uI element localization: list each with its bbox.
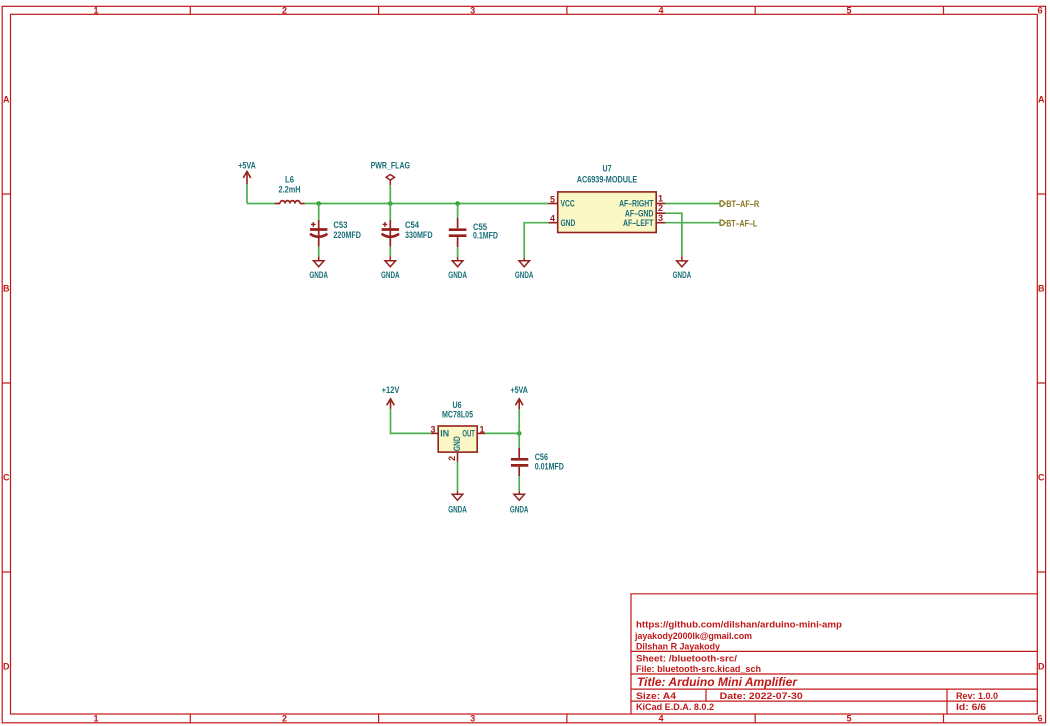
svg-text:2: 2: [447, 456, 457, 461]
title block: [631, 594, 1037, 714]
svg-text:C56: C56: [535, 452, 548, 462]
svg-text:GNDA: GNDA: [510, 505, 529, 515]
svg-text:B: B: [3, 284, 10, 294]
ground GNDA AF-GND: [677, 256, 688, 267]
svg-text:A: A: [3, 95, 10, 105]
wire C55 bottom: [457, 247, 459, 257]
svg-text:Id: 6/6: Id: 6/6: [956, 702, 986, 712]
wire GND pin4 horizontal: [524, 223, 548, 258]
net label BT-AF-L: [720, 218, 758, 228]
wire +5VA stem bottom: [518, 409, 520, 433]
pin 3 IN: [431, 432, 438, 434]
wire +12V to U6: [391, 409, 432, 434]
ground GNDA U7: [519, 258, 530, 267]
pin 1 OUT: [477, 432, 485, 434]
svg-text:4: 4: [550, 214, 555, 224]
svg-text:C53: C53: [333, 220, 347, 230]
svg-text:GNDA: GNDA: [381, 270, 400, 280]
wire C54 bottom: [389, 247, 391, 257]
ground GNDA U6: [452, 491, 463, 500]
svg-text:U7: U7: [603, 164, 612, 174]
svg-text:3: 3: [658, 213, 663, 223]
wire PWR_FLAG stem: [389, 185, 391, 203]
pin 5 VCC: [548, 203, 558, 205]
svg-text:AC6939-MODULE: AC6939-MODULE: [577, 175, 638, 185]
svg-text:L6: L6: [285, 174, 294, 184]
svg-text:jayakody2000lk@gmail.com: jayakody2000lk@gmail.com: [634, 631, 752, 641]
svg-text:220MFD: 220MFD: [333, 230, 361, 240]
svg-text:GNDA: GNDA: [309, 270, 328, 280]
svg-text:AF–RIGHT: AF–RIGHT: [619, 199, 654, 209]
wire C55 top: [457, 204, 459, 219]
pin 3 AF-LEFT: [656, 222, 666, 224]
svg-text:1: 1: [658, 194, 663, 204]
svg-text:Sheet: /bluetooth-src/: Sheet: /bluetooth-src/: [636, 653, 738, 663]
inductor L6: [275, 201, 305, 204]
svg-text:BT–AF–R: BT–AF–R: [726, 199, 760, 209]
svg-text:+12V: +12V: [382, 385, 400, 395]
svg-text:2: 2: [282, 6, 287, 16]
svg-text:C: C: [3, 473, 10, 483]
wire C54 top: [389, 204, 391, 221]
svg-text:Dilshan R Jayakody: Dilshan R Jayakody: [636, 642, 720, 652]
svg-text:File: bluetooth-src.kicad_sch: File: bluetooth-src.kicad_sch: [636, 664, 761, 674]
net label BT-AF-R: [720, 199, 760, 209]
svg-text:1: 1: [93, 6, 98, 16]
svg-text:3: 3: [470, 714, 475, 724]
ground GNDA C56: [514, 491, 525, 500]
svg-text:D: D: [1038, 661, 1045, 671]
wire AF-GND down: [666, 213, 682, 256]
wire VCC rail main: [305, 203, 549, 205]
svg-text:330MFD: 330MFD: [405, 230, 433, 240]
svg-text:C: C: [1038, 473, 1045, 483]
svg-text:+5VA: +5VA: [510, 385, 528, 395]
svg-text:MC78L05: MC78L05: [442, 410, 473, 420]
wire U6 out to junction: [485, 432, 519, 434]
svg-text:5: 5: [846, 6, 851, 16]
svg-text:Rev: 1.0.0: Rev: 1.0.0: [956, 691, 998, 701]
svg-text:GND: GND: [452, 436, 462, 451]
svg-text:KiCad E.D.A. 8.0.2: KiCad E.D.A. 8.0.2: [636, 702, 714, 712]
svg-text:D: D: [3, 661, 10, 671]
svg-text:2: 2: [282, 714, 287, 724]
wire AF-LEFT to BT-AF-L: [666, 222, 720, 224]
ground GNDA C55: [452, 257, 463, 267]
wire U6 pin2 down: [457, 462, 459, 491]
svg-text:IN: IN: [440, 429, 449, 439]
wire C53 bottom: [318, 247, 320, 257]
junction node C55: [455, 201, 460, 206]
power +5VA: [243, 172, 251, 185]
capacitor C54: [382, 220, 399, 247]
svg-text:4: 4: [658, 6, 663, 16]
junction node OUT: [517, 431, 522, 436]
svg-text:AF–LEFT: AF–LEFT: [623, 218, 654, 228]
svg-text:1: 1: [93, 714, 98, 724]
svg-text:PWR_FLAG: PWR_FLAG: [371, 161, 410, 171]
svg-text:https://github.com/dilshan/ard: https://github.com/dilshan/arduino-mini-…: [636, 620, 843, 630]
svg-text:GNDA: GNDA: [448, 505, 467, 515]
wire C56 top: [518, 433, 520, 448]
svg-text:6: 6: [1037, 714, 1042, 724]
ground GNDA C53: [313, 256, 324, 266]
svg-text:1: 1: [480, 424, 485, 434]
svg-text:Title: Arduino Mini Amplifier: Title: Arduino Mini Amplifier: [637, 677, 798, 689]
svg-text:GNDA: GNDA: [515, 270, 534, 280]
svg-text:GNDA: GNDA: [673, 270, 692, 280]
wire AF-RIGHT to BT-AF-R: [666, 203, 720, 205]
wire VCC rail left: [247, 203, 275, 205]
junction node C53: [316, 201, 321, 206]
wire +5VA drop: [246, 184, 248, 204]
IC U7 AC6939-MODULE: [548, 164, 666, 233]
svg-text:3: 3: [430, 424, 435, 434]
junction node C54: [388, 201, 393, 206]
svg-text:BT–AF–L: BT–AF–L: [726, 218, 757, 228]
pin 2 AF-GND: [656, 212, 666, 214]
svg-text:2: 2: [658, 203, 663, 213]
power flag PWR_FLAG: [386, 175, 394, 186]
svg-text:5: 5: [846, 714, 851, 724]
svg-text:0.01MFD: 0.01MFD: [535, 462, 565, 472]
svg-text:C54: C54: [405, 220, 419, 230]
wire C53 top: [318, 204, 320, 221]
svg-text:2.2mH: 2.2mH: [279, 184, 301, 194]
pin 4 GND: [548, 222, 558, 224]
power +12V: [387, 399, 395, 409]
ground GNDA C54: [385, 256, 396, 266]
svg-text:OUT: OUT: [462, 429, 475, 439]
svg-text:5: 5: [550, 194, 555, 204]
wire C56 bottom: [518, 476, 520, 491]
svg-text:GND: GND: [561, 218, 576, 228]
svg-text:Date: 2022-07-30: Date: 2022-07-30: [720, 691, 803, 701]
svg-text:+5VA: +5VA: [238, 161, 256, 171]
svg-text:6: 6: [1037, 6, 1042, 16]
capacitor C53: [310, 220, 327, 247]
capacitor C56: [511, 448, 528, 476]
svg-text:3: 3: [470, 6, 475, 16]
power +5VA bottom: [515, 399, 523, 409]
svg-text:AF–GND: AF–GND: [625, 208, 654, 218]
svg-text:Size: A4: Size: A4: [636, 691, 676, 701]
svg-text:0.1MFD: 0.1MFD: [473, 230, 498, 240]
svg-text:U6: U6: [453, 400, 462, 410]
pin 1 AF-RIGHT: [656, 203, 666, 205]
svg-text:VCC: VCC: [561, 199, 576, 209]
svg-text:4: 4: [658, 714, 663, 724]
svg-text:A: A: [1038, 95, 1045, 105]
IC U6 MC78L05: [430, 400, 485, 462]
capacitor C55: [449, 218, 467, 247]
svg-text:GNDA: GNDA: [448, 270, 467, 280]
pin 2 GND: [457, 452, 459, 462]
svg-text:B: B: [1038, 284, 1045, 294]
